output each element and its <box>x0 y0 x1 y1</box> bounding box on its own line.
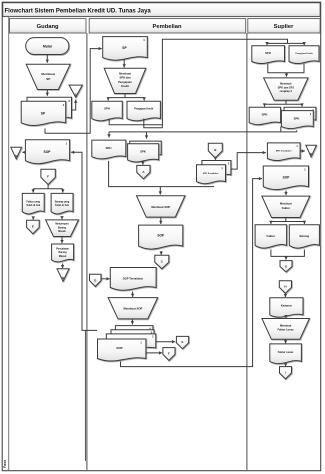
svg-text:E: E <box>32 225 34 229</box>
connector E gudang <box>27 220 40 234</box>
manual op Membuat SPK rangkap 2 <box>264 78 308 100</box>
connector F gudang <box>41 169 55 184</box>
connector F2 <box>163 348 175 361</box>
svg-text:Membuat: Membuat <box>41 72 55 76</box>
svg-text:Barang yang: Barang yang <box>55 200 70 203</box>
phase sidebar line <box>8 17 10 471</box>
wire SPK back to Pembelian <box>280 127 282 132</box>
svg-text:Masuk: Masuk <box>58 230 66 233</box>
connector H <box>279 281 291 294</box>
svg-text:H: H <box>284 285 286 289</box>
manual op Membuat SPH dan Pengajuan Kredit <box>104 68 146 93</box>
svg-text:Faktur: Faktur <box>267 234 276 238</box>
svg-text:Telah di Cek: Telah di Cek <box>26 204 41 207</box>
document Faktur <box>255 225 287 248</box>
lane divider 2 <box>246 33 248 470</box>
connector E2 <box>176 336 188 348</box>
wire merge to connector G <box>271 250 305 257</box>
svg-text:SOP: SOP <box>157 234 165 238</box>
arrow SOP1 to connector F2 <box>146 352 162 354</box>
wire SOP copy from Pembelian stack <box>71 152 97 330</box>
arrow faktur to connector E <box>32 217 34 220</box>
svg-text:Telah di Cek: Telah di Cek <box>55 204 70 207</box>
document SPK Tervalidasi copy 1 <box>197 165 226 184</box>
svg-text:Barang: Barang <box>299 234 309 238</box>
arrow SOP to archive <box>22 151 25 153</box>
document Pengajuan Kredit 1 <box>127 101 160 121</box>
arrow to Membuat SOP 2 <box>132 292 134 298</box>
title bar <box>3 3 320 17</box>
document SOP gudang <box>25 140 69 164</box>
document SPK copy stack front <box>128 144 159 162</box>
svg-text:Fase: Fase <box>3 460 7 468</box>
lane divider 1 <box>86 33 88 470</box>
svg-text:Pengajuan Kredit: Pengajuan Kredit <box>134 108 153 111</box>
arrow pencatatan to archive <box>62 264 64 269</box>
manual op Membuat SP <box>26 64 70 89</box>
document Kwitansi <box>270 298 303 317</box>
svg-text:SP: SP <box>46 77 50 81</box>
connector I <box>280 367 292 379</box>
svg-text:SOP: SOP <box>116 346 122 350</box>
svg-text:Flowchart Sistem Pembelian Kre: Flowchart Sistem Pembelian Kredit UD. Tu… <box>5 8 152 14</box>
svg-text:Membuat: Membuat <box>119 72 131 76</box>
svg-text:N: N <box>15 154 17 158</box>
manual op Membuat SOP 1 <box>137 196 186 217</box>
connector G <box>280 261 292 272</box>
svg-text:Gudang: Gudang <box>37 24 59 30</box>
arrow to Faktur Lunas <box>285 339 287 343</box>
arrow SPK stack to connector A <box>142 161 144 165</box>
document SPK left <box>249 107 280 124</box>
arrow SOP2 to connector E2 <box>156 341 175 343</box>
wire SP1 to Pembelian SP <box>45 49 102 134</box>
svg-text:F: F <box>168 351 170 355</box>
arrow to archive N4 <box>300 150 305 152</box>
svg-text:SOP: SOP <box>44 150 52 154</box>
document SOP copy 4 <box>115 326 152 339</box>
arrow Faktur Lunas to connector I <box>285 365 287 367</box>
terminator Mulai <box>26 38 69 55</box>
connector A <box>137 165 150 178</box>
svg-text:SPK: SPK <box>140 149 146 153</box>
document SOP copy 2b <box>106 334 156 350</box>
manual op Menyimpan Barang Masuk <box>46 220 79 237</box>
wire SPH+PK to Suplier <box>109 119 162 125</box>
svg-text:Faktur Lunas: Faktur Lunas <box>278 351 294 354</box>
svg-text:Membuat SOP: Membuat SOP <box>123 307 142 311</box>
wire SPK Tervalidasi to Suplier <box>231 153 266 170</box>
manual op Membuat SOP 2 <box>108 298 158 319</box>
document SPH 2 <box>92 140 126 159</box>
svg-text:SPH dan: SPH dan <box>119 76 130 80</box>
svg-text:Kwitansi: Kwitansi <box>281 304 292 308</box>
document SPK Tervalidasi copy 2 <box>202 161 231 177</box>
arrow Kwitansi to Membuat Faktur Lunas <box>285 316 287 318</box>
manual op Membuat Faktur <box>262 196 310 217</box>
svg-text:Faktur: Faktur <box>282 206 290 210</box>
svg-text:N: N <box>310 152 312 156</box>
arrow Mulai to Membuat SP <box>46 55 48 63</box>
svg-text:Membuat SOP: Membuat SOP <box>151 205 170 209</box>
svg-text:Barang: Barang <box>58 251 67 254</box>
svg-text:Faktur yang: Faktur yang <box>26 200 40 203</box>
document SOP suplier <box>263 166 308 190</box>
wire merge to membuat SPK <box>268 64 304 73</box>
document SOP copy 3 <box>111 330 154 344</box>
document Faktur yang Telah di Cek <box>22 193 44 214</box>
wire SPH to Membuat SOP <box>109 161 214 187</box>
arrow SOP to connector C <box>160 251 162 255</box>
archive triangle N4 <box>306 145 317 157</box>
archive triangle N3 <box>57 269 69 281</box>
svg-text:SOP Tervalidasi: SOP Tervalidasi <box>123 276 143 280</box>
svg-text:Pengajuan Kredit: Pengajuan Kredit <box>295 52 312 55</box>
document SOP pembelian <box>139 225 183 249</box>
svg-text:SPH: SPH <box>104 107 110 111</box>
wire split to SPK docs <box>285 100 287 104</box>
svg-text:Kredit: Kredit <box>121 84 129 88</box>
connector D <box>90 274 102 286</box>
document Pencatatan Barang Masuk <box>52 244 74 262</box>
manual op Membuat Faktur Lunas <box>262 319 310 340</box>
archive triangle N1 <box>69 85 82 97</box>
wire connector split gudang <box>47 185 49 189</box>
svg-text:SPK dan SPJ: SPK dan SPJ <box>278 85 295 89</box>
document SPH suplier <box>252 46 285 64</box>
arrow SP to Membuat SPH <box>123 60 125 68</box>
arrow D to SOP Tervalidasi <box>101 278 110 280</box>
document SPK Tervalidasi suplier <box>267 143 300 161</box>
svg-text:SPH: SPH <box>265 51 271 55</box>
svg-text:Pencatatan: Pencatatan <box>56 247 69 250</box>
svg-text:SPK: SPK <box>294 117 300 121</box>
svg-text:SPK Tervalidasi: SPK Tervalidasi <box>203 172 219 175</box>
svg-text:Membuat: Membuat <box>280 323 292 327</box>
svg-text:SPK: SPK <box>262 113 268 117</box>
svg-text:F: F <box>47 175 49 179</box>
svg-text:SPH: SPH <box>106 146 112 150</box>
document Faktur Lunas <box>270 344 302 364</box>
document SOP copy 1b <box>98 339 146 361</box>
svg-text:Faktur Lunas: Faktur Lunas <box>277 327 294 331</box>
svg-text:Membuat: Membuat <box>280 202 292 206</box>
arrow to SOP doc <box>160 217 162 224</box>
arrow B to SPK Tervalidasi stack <box>214 158 216 160</box>
archive triangle N2 <box>11 147 22 159</box>
arrow to SOP stack <box>131 319 133 325</box>
document SP copy 2 <box>27 97 72 120</box>
document SP pembelian <box>103 37 148 61</box>
document SPK copy stack back <box>130 141 162 156</box>
document Barang yang Telah di Cek <box>51 193 73 214</box>
svg-text:Pengajuan: Pengajuan <box>118 80 132 84</box>
svg-text:Suplier: Suplier <box>274 24 294 30</box>
document SOP Tervalidasi <box>110 268 156 291</box>
svg-text:Mulai: Mulai <box>43 44 52 48</box>
svg-text:N: N <box>62 276 64 280</box>
svg-text:Barang: Barang <box>58 226 67 229</box>
wire split to SPH and Pengajuan Kredit <box>124 94 126 98</box>
connector B <box>208 143 222 158</box>
arrow SOP to Membuat Faktur <box>285 191 287 196</box>
svg-text:SOP: SOP <box>283 176 291 180</box>
lane header Gudang <box>10 19 87 33</box>
arrow Membuat SP to SP docs <box>46 90 48 96</box>
document SPK copy 1 <box>281 111 313 129</box>
lane header Pembelian <box>89 19 246 33</box>
svg-text:Masuk: Masuk <box>59 255 67 258</box>
arrow H to Kwitansi <box>284 293 286 297</box>
document Barang <box>289 225 319 248</box>
document SPH 1 <box>92 101 123 121</box>
svg-text:Membuat: Membuat <box>280 81 292 85</box>
wire SP2 to archive <box>72 100 76 111</box>
wire stub along divider <box>84 330 86 461</box>
lane header Suplier <box>248 19 320 33</box>
svg-text:Pembelian: Pembelian <box>153 24 182 30</box>
svg-text:rangkap 2: rangkap 2 <box>280 89 293 93</box>
wire SOP stack to Suplier SOP <box>121 179 263 367</box>
connector C <box>155 255 169 269</box>
document Pengajuan Kredit suplier <box>289 46 319 64</box>
svg-text:E: E <box>182 340 184 344</box>
document SPK copy 2 <box>284 107 316 121</box>
arrow to pencatatan <box>61 237 63 244</box>
svg-text:Menyimpan: Menyimpan <box>55 223 69 226</box>
document SP copy 1 <box>21 101 65 125</box>
svg-text:SPK Tervalidasi: SPK Tervalidasi <box>276 150 292 153</box>
wire split to Faktur Barang <box>285 218 287 222</box>
arrow barang to menyimpan <box>61 217 63 220</box>
